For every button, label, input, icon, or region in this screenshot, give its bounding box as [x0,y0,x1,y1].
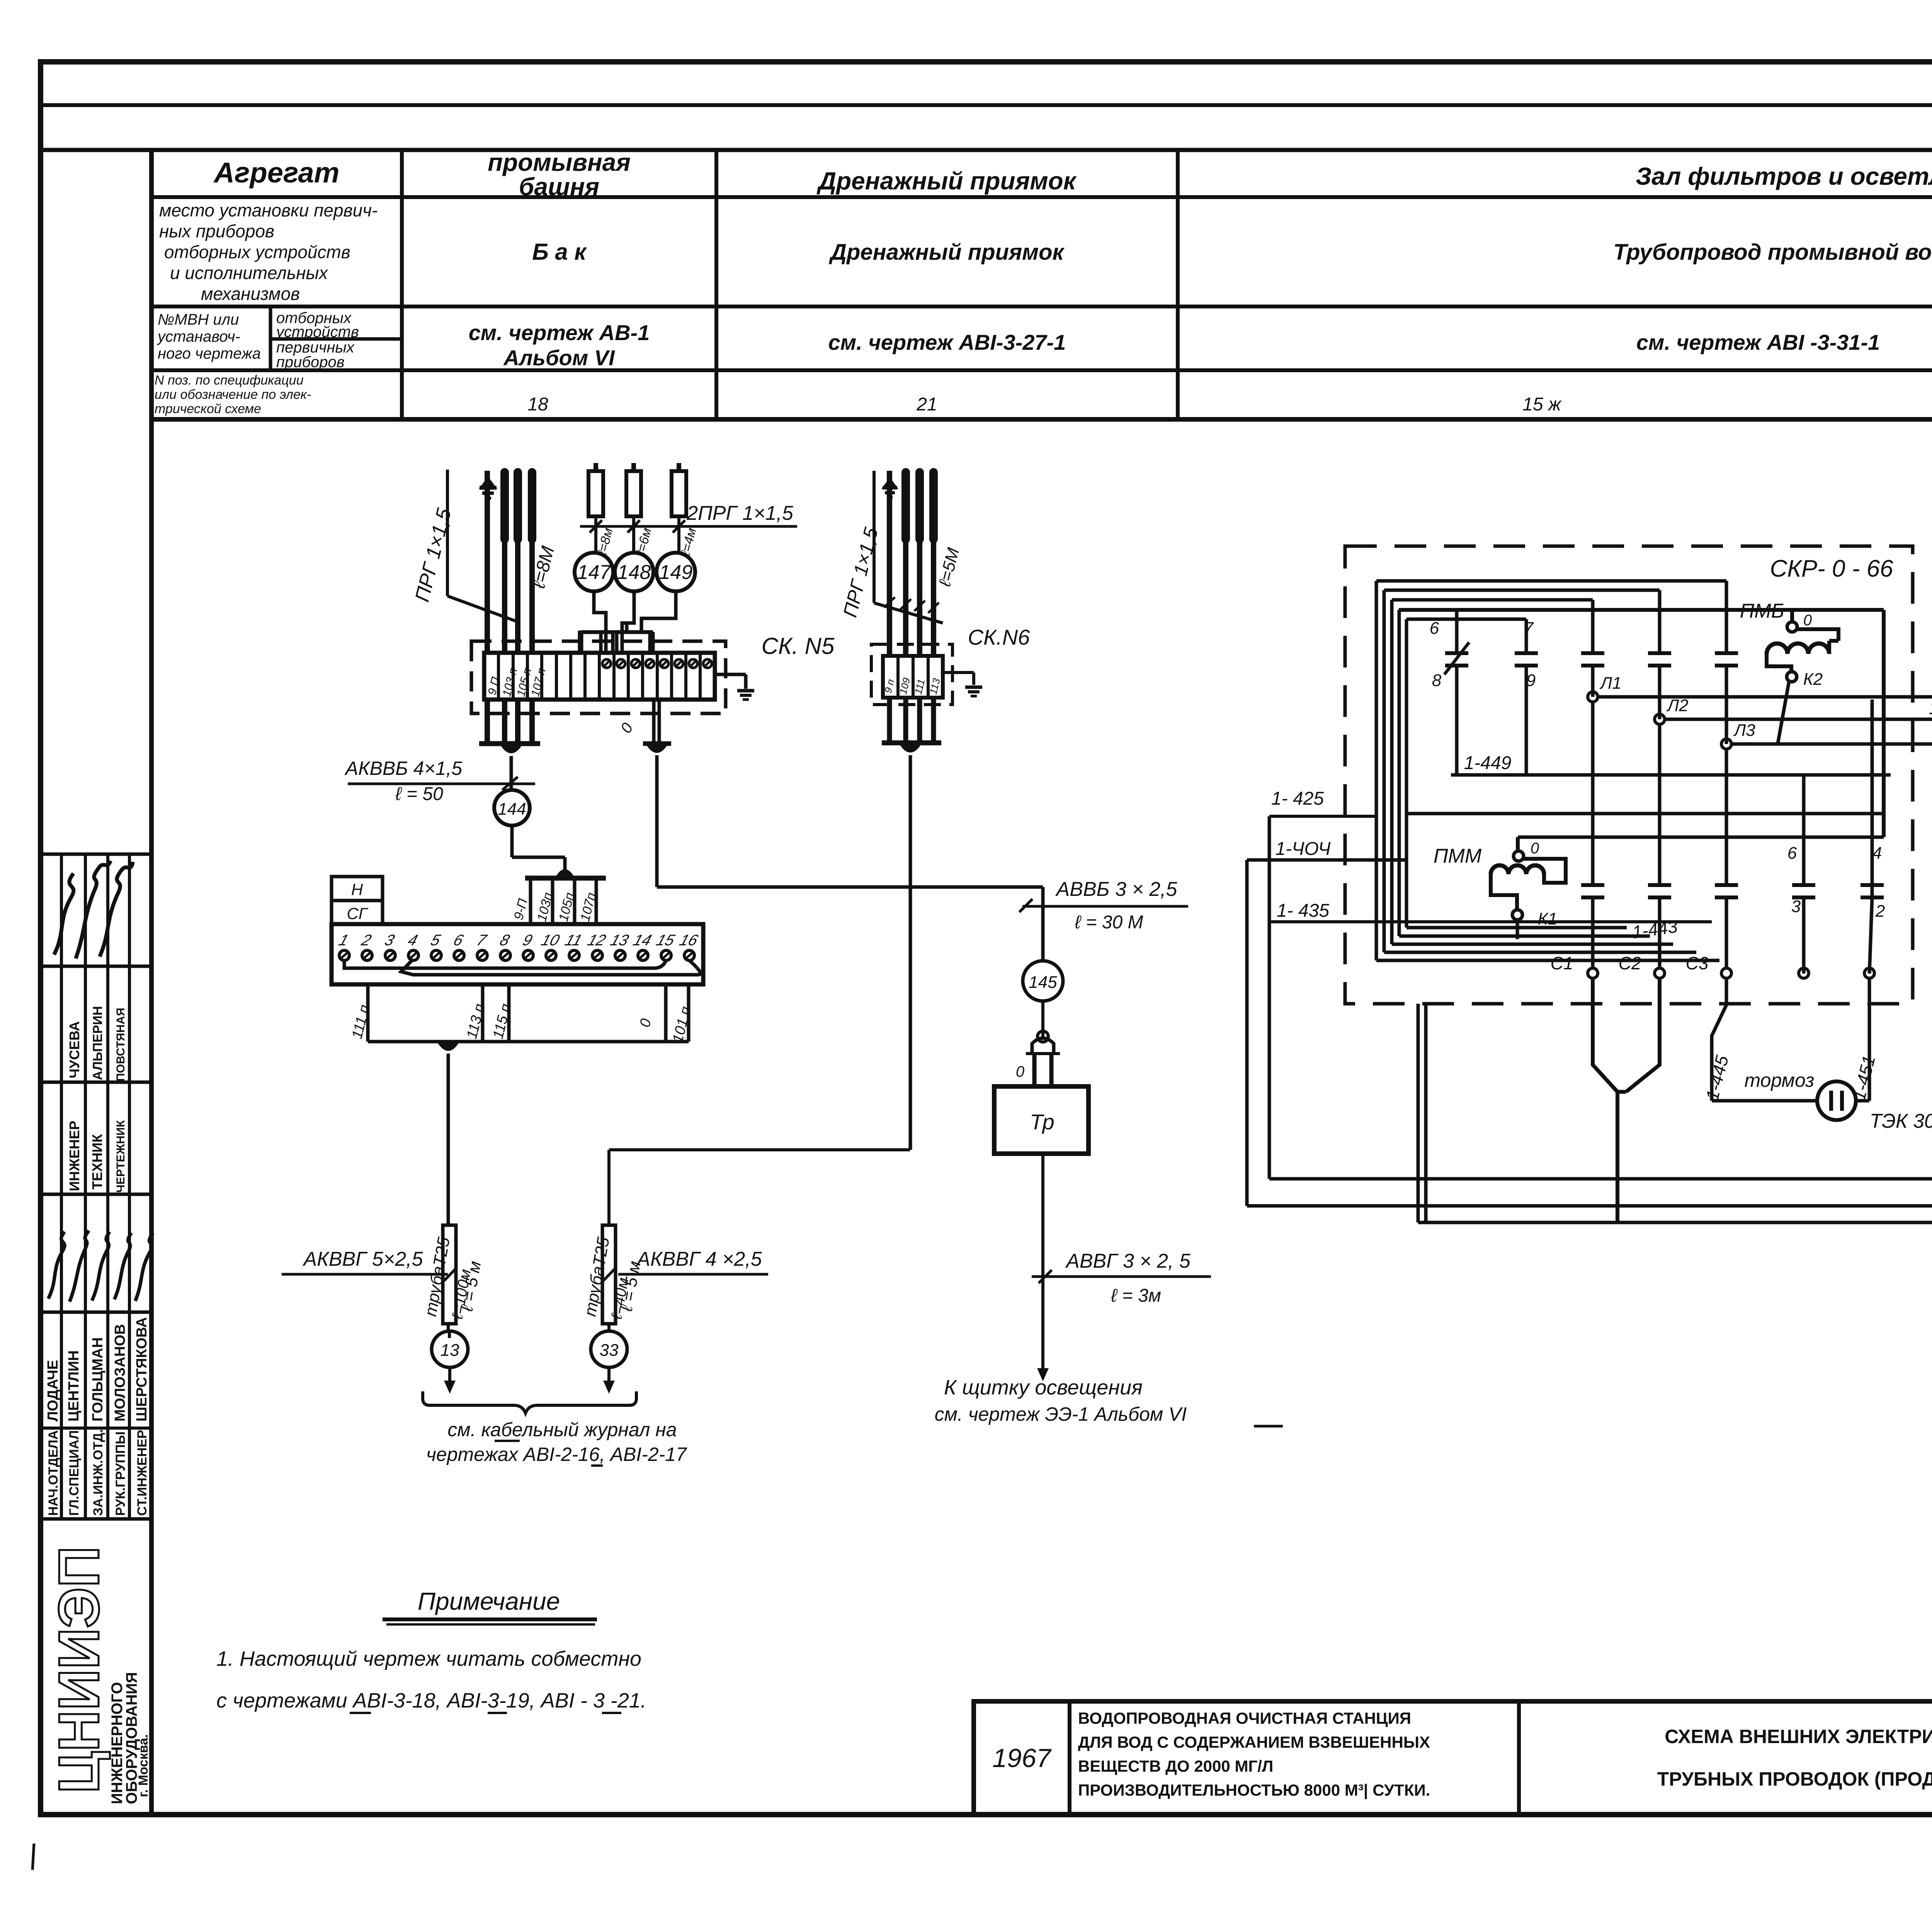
svg-text:ℓ = 50: ℓ = 50 [395,784,443,804]
svg-text:Л2: Л2 [1666,696,1689,715]
svg-text:21: 21 [916,394,937,415]
svg-text:145: 145 [1029,973,1057,992]
svg-text:ного чертежа: ного чертежа [158,345,261,362]
svg-text:Дренажный приямок: Дренажный приямок [828,240,1065,265]
svg-text:ПММ: ПММ [1434,845,1482,867]
svg-text:ТЕХНИК: ТЕХНИК [89,1134,105,1190]
svg-text:ГЛ.СПЕЦИАЛ: ГЛ.СПЕЦИАЛ [67,1430,82,1516]
svg-text:С2: С2 [1619,953,1641,973]
svg-text:Зал фильтров и осветлите: Зал фильтров и осветлителей [1636,162,1932,190]
svg-text:ЦЕНТЛИН: ЦЕНТЛИН [66,1350,82,1422]
svg-text:33: 33 [600,1341,619,1360]
svg-text:15 ж: 15 ж [1522,394,1562,415]
svg-text:3: 3 [1791,897,1801,916]
svg-text:Л3: Л3 [1733,721,1755,740]
svg-text:13: 13 [440,1341,459,1360]
svg-text:СТ.ИНЖЕНЕР: СТ.ИНЖЕНЕР [135,1430,150,1516]
svg-text:СК.N6: СК.N6 [968,625,1030,649]
svg-text:МОЛОЗАНОВ: МОЛОЗАНОВ [112,1324,128,1422]
svg-text:тормоз: тормоз [1745,1069,1815,1091]
svg-text:ℓ = 30 М: ℓ = 30 М [1075,912,1143,933]
svg-text:см. чертеж АВI -3-31-1: см. чертеж АВI -3-31-1 [1636,330,1880,354]
svg-text:ТЭК 30/60: ТЭК 30/60 [1870,1110,1932,1132]
svg-text:Примечание: Примечание [418,1587,560,1615]
svg-text:№МВН или: №МВН или [158,311,239,328]
svg-text:Тр: Тр [1030,1110,1054,1134]
svg-text:1- 427: 1- 427 [1929,698,1932,718]
svg-text:149: 149 [659,561,693,584]
svg-text:ИНЖЕНЕР: ИНЖЕНЕР [66,1121,82,1191]
svg-text:К1: К1 [1538,909,1557,928]
svg-text:ЗА.ИНЖ.ОТД.: ЗА.ИНЖ.ОТД. [91,1429,105,1516]
svg-text:К2: К2 [1803,670,1823,689]
svg-text:ВОДОПРОВОДНАЯ ОЧИСТНАЯ СТАНЦ: ВОДОПРОВОДНАЯ ОЧИСТНАЯ СТАНЦИЯ [1078,1709,1411,1727]
svg-text:144: 144 [498,800,526,819]
svg-text:ТРУБНЫХ ПРОВОДОК (ПРОДОЛЖЕ: ТРУБНЫХ ПРОВОДОК (ПРОДОЛЖЕНИЕ) [1657,1768,1932,1790]
svg-text:и исполнительных: и исполнительных [170,263,328,283]
svg-text:г. Москва.: г. Москва. [136,1734,151,1797]
svg-text:Трубопровод промывной вод: Трубопровод промывной воды [1613,240,1932,265]
svg-text:с чертежами АВI-3-18, АВI: с чертежами АВI-3-18, АВI-3-19, АВI - 3 … [216,1689,646,1712]
svg-text:С1: С1 [1551,953,1573,973]
svg-text:ПОВСТЯНАЯ: ПОВСТЯНАЯ [114,1008,127,1081]
svg-text:148: 148 [617,561,651,584]
svg-text:147: 147 [577,561,612,584]
svg-text:см. кабельный журнал на: см. кабельный журнал на [447,1419,677,1440]
svg-text:6: 6 [1787,844,1797,863]
svg-text:Дренажный приямок: Дренажный приямок [816,167,1077,195]
svg-text:место установки первич-: место установки первич- [159,200,378,220]
svg-text:СХЕМА ВНЕШНИХ ЭЛЕКТРИЧЕСК: СХЕМА ВНЕШНИХ ЭЛЕКТРИЧЕСКИХ И [1665,1726,1932,1747]
svg-text:ЦНИИЭП: ЦНИИЭП [47,1546,111,1793]
svg-text:1- 425: 1- 425 [1271,788,1324,809]
svg-text:0: 0 [1016,1063,1024,1080]
svg-text:устанавоч-: устанавоч- [156,328,240,345]
svg-text:НАЧ.ОТДЕЛА: НАЧ.ОТДЕЛА [46,1430,61,1516]
svg-text:ПРОИЗВОДИТЕЛЬНОСТЬЮ 8000 М³| С: ПРОИЗВОДИТЕЛЬНОСТЬЮ 8000 М³| СУТКИ. [1078,1781,1430,1800]
svg-text:0: 0 [1803,612,1812,629]
svg-text:1- 435: 1- 435 [1277,901,1329,921]
svg-text:18: 18 [527,394,548,415]
svg-text:башня: башня [519,173,599,201]
svg-text:8: 8 [1432,671,1442,690]
svg-text:ДЛЯ ВОД С СОДЕРЖАНИЕМ ВЗВЕШЕН: ДЛЯ ВОД С СОДЕРЖАНИЕМ ВЗВЕШЕННЫХ [1078,1733,1430,1751]
svg-text:N поз. по спецификации: N поз. по спецификации [155,373,304,388]
svg-text:0: 0 [1531,840,1539,857]
svg-text:ГОЛЬЦМАН: ГОЛЬЦМАН [90,1337,106,1422]
svg-text:1. Настоящий чертеж: 1. Настоящий чертеж читать собместно [216,1647,641,1670]
svg-text:СГ: СГ [347,904,368,923]
svg-text:АВВГ 3 × 2, 5: АВВГ 3 × 2, 5 [1065,1250,1191,1272]
svg-text:ШЕРСТЯКОВА: ШЕРСТЯКОВА [134,1317,150,1422]
svg-text:механизмов: механизмов [201,284,300,304]
svg-text:промывная: промывная [488,148,631,176]
svg-text:РУК.ГРУППЫ: РУК.ГРУППЫ [113,1432,128,1516]
svg-text:см. чертеж ЭЭ-1 Альбом VI: см. чертеж ЭЭ-1 Альбом VI [935,1403,1187,1425]
svg-text:см. чертеж АВI-3-27-1: см. чертеж АВI-3-27-1 [828,330,1066,354]
svg-text:или обозначение по элек-: или обозначение по элек- [155,387,311,402]
svg-text:6: 6 [1430,619,1439,638]
svg-text:2ПРГ 1×1,5: 2ПРГ 1×1,5 [686,502,794,524]
svg-text:СКР- 0 - 66: СКР- 0 - 66 [1770,555,1893,582]
svg-text:устройств: устройств [275,323,359,340]
svg-text:приборов: приборов [276,354,345,371]
svg-text:1-ЧОЧ: 1-ЧОЧ [1275,839,1331,859]
svg-text:ВЕЩЕСТВ ДО 2000 МГ/Л: ВЕЩЕСТВ ДО 2000 МГ/Л [1078,1757,1273,1775]
svg-text:1-449: 1-449 [1464,753,1512,773]
svg-text:Агрегат: Агрегат [213,157,340,189]
svg-text:Л1: Л1 [1599,674,1622,693]
svg-text:К щитку освещения: К щитку освещения [944,1376,1143,1399]
svg-text:Альбом VI: Альбом VI [503,346,615,370]
svg-text:Б а к: Б а к [532,239,587,265]
svg-text:АКВВГ 4 ×2,5: АКВВГ 4 ×2,5 [636,1248,762,1270]
svg-text:АКВВГ 5×2,5: АКВВГ 5×2,5 [302,1248,423,1270]
svg-text:отборных устройств: отборных устройств [164,242,350,262]
svg-text:2: 2 [1875,902,1885,921]
svg-text:трической схеме: трической схеме [155,402,261,416]
svg-text:ных приборов: ных приборов [159,221,274,241]
svg-text:АВВБ 3 × 2,5: АВВБ 3 × 2,5 [1055,878,1178,901]
svg-text:ℓ = 3м: ℓ = 3м [1111,1285,1161,1306]
svg-text:см. чертеж АВ-1: см. чертеж АВ-1 [469,320,650,345]
svg-text:7: 7 [1524,619,1534,638]
svg-text:ЛОДАЧЕ: ЛОДАЧЕ [45,1360,61,1422]
svg-text:СК. N5: СК. N5 [762,633,835,659]
svg-text:АЛЬПЕРИН: АЛЬПЕРИН [90,1006,105,1080]
svg-text:Н: Н [351,880,363,899]
svg-text:ЧЕРТЕЖНИК: ЧЕРТЕЖНИК [114,1120,127,1193]
svg-text:1967: 1967 [992,1743,1051,1773]
svg-text:ЧУСЕВА: ЧУСЕВА [66,1021,82,1078]
svg-text:чертежах АВI-2-16, АВI-2-17: чертежах АВI-2-16, АВI-2-17 [426,1444,687,1465]
svg-text:С3: С3 [1686,953,1709,973]
svg-text:АКВВБ 4×1,5: АКВВБ 4×1,5 [344,758,463,779]
